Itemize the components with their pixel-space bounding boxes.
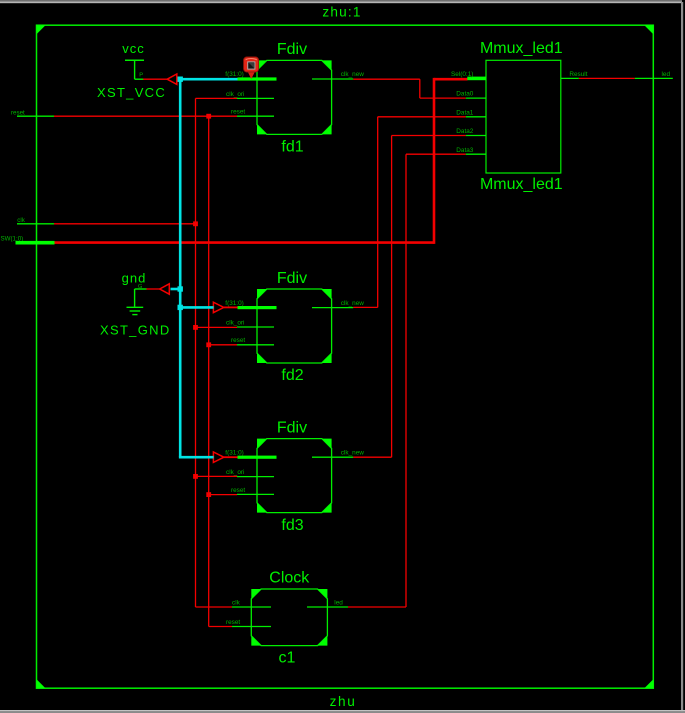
svg-text:gnd: gnd [122, 270, 147, 285]
svg-text:clk: clk [232, 600, 241, 607]
svg-text:Fdiv: Fdiv [277, 270, 307, 287]
svg-text:Result: Result [569, 71, 587, 78]
svg-text:Mmux_led1: Mmux_led1 [480, 40, 563, 57]
svg-text:Mmux_led1: Mmux_led1 [480, 176, 563, 193]
svg-text:Fdiv: Fdiv [277, 41, 307, 58]
svg-text:fd1: fd1 [281, 139, 303, 156]
svg-text:reset: reset [231, 109, 245, 116]
svg-text:Data2: Data2 [456, 128, 473, 135]
svg-text:f(31:0): f(31:0) [225, 449, 243, 456]
svg-text:reset: reset [231, 487, 245, 494]
svg-text:G: G [138, 284, 143, 290]
svg-text:clk_new: clk_new [341, 449, 364, 456]
svg-text:clk_ori: clk_ori [226, 91, 244, 98]
svg-text:XST_VCC: XST_VCC [97, 85, 166, 100]
svg-text:c1: c1 [279, 650, 296, 667]
svg-text:reset: reset [226, 619, 240, 626]
svg-text:f(31:0): f(31:0) [225, 71, 243, 78]
svg-text:f(31:0): f(31:0) [225, 300, 243, 307]
svg-text:Clock: Clock [269, 569, 310, 586]
svg-text:reset: reset [231, 337, 245, 344]
svg-text:clk_ori: clk_ori [226, 469, 244, 476]
svg-text:led: led [662, 71, 671, 78]
svg-text:clk_ori: clk_ori [226, 319, 244, 326]
svg-text:P: P [139, 73, 143, 79]
svg-text:Data1: Data1 [456, 109, 473, 116]
svg-text:Data3: Data3 [456, 147, 473, 154]
svg-text:reset: reset [11, 109, 25, 116]
svg-text:fd2: fd2 [281, 367, 303, 384]
svg-text:clk_new: clk_new [341, 300, 364, 307]
svg-text:zhu: zhu [330, 694, 357, 709]
svg-text:vcc: vcc [122, 41, 145, 56]
svg-text:Sel(0:1): Sel(0:1) [451, 71, 473, 78]
svg-text:clk_new: clk_new [341, 71, 364, 78]
svg-text:zhu:1: zhu:1 [322, 4, 361, 19]
svg-text:XST_GND: XST_GND [100, 323, 171, 338]
svg-text:fd3: fd3 [281, 517, 303, 534]
svg-text:led: led [334, 600, 343, 607]
svg-text:Data0: Data0 [456, 91, 473, 98]
svg-text:clk: clk [17, 217, 25, 224]
svg-text:Fdiv: Fdiv [277, 419, 307, 436]
